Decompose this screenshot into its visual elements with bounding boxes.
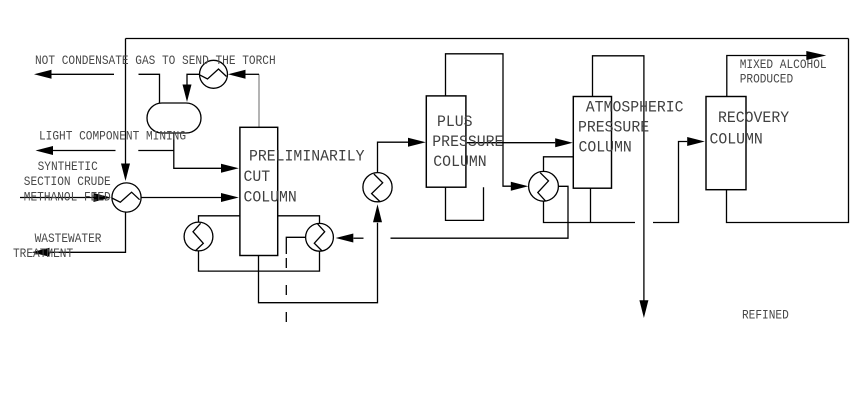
arrow feed into E1 bbox=[94, 193, 112, 202]
wire E1 to preliminary column bbox=[141, 197, 221, 199]
svg-text:LIGHT COMPONENT MINING: LIGHT COMPONENT MINING bbox=[39, 128, 186, 143]
wire drum top to torch line bbox=[139, 74, 160, 103]
heat exchanger E1 feed mixer bbox=[112, 183, 141, 212]
drum V1 reflux drum bbox=[147, 103, 201, 133]
svg-text:PLUS: PLUS bbox=[437, 112, 473, 130]
svg-text:COLUMN: COLUMN bbox=[710, 130, 763, 148]
wire E6 right to return header bbox=[391, 186, 569, 238]
arrow into plus pressure column bbox=[408, 138, 426, 147]
arrow light component mining bbox=[36, 146, 54, 155]
wire torch line left segment bbox=[51, 73, 114, 75]
wire C4 overhead mixed alcohol bbox=[727, 56, 807, 97]
wire recycle left drop bbox=[125, 39, 127, 165]
svg-text:WASTEWATER: WASTEWATER bbox=[35, 231, 102, 246]
wire C3 condenser loop refined product bbox=[593, 56, 644, 301]
wire return header left segment bbox=[354, 237, 364, 239]
wire E4 left port to dashed bbox=[286, 237, 305, 254]
svg-text:PRELIMINARILY: PRELIMINARILY bbox=[249, 147, 365, 165]
arrow into condenser E2 bbox=[228, 70, 246, 79]
svg-text:RECOVERY: RECOVERY bbox=[718, 109, 789, 127]
wire methanol feed line bbox=[20, 197, 94, 199]
wire overhead to condenser bbox=[246, 73, 260, 75]
heat exchanger E3 bbox=[184, 222, 213, 251]
svg-text:MIXED ALCOHOL: MIXED ALCOHOL bbox=[740, 57, 827, 72]
wire E3 bottom loop to E4 bbox=[199, 251, 320, 271]
svg-text:COLUMN: COLUMN bbox=[244, 188, 297, 206]
label recovery column bbox=[718, 109, 789, 127]
arrow down into drum bbox=[183, 85, 192, 103]
wire light component right segment bbox=[138, 150, 174, 152]
arrow into atmospheric column bbox=[555, 138, 573, 147]
label synthetic section crude methanol feed bbox=[38, 159, 98, 174]
svg-text:TREATMENT: TREATMENT bbox=[13, 246, 73, 261]
wire dashed drain bbox=[285, 258, 287, 322]
wire C1 side draw to E3 bbox=[199, 216, 240, 222]
column C3 atmospheric pressure column bbox=[573, 97, 611, 189]
arrow into recovery column bbox=[687, 137, 705, 146]
arrow up into E5 bbox=[373, 204, 382, 222]
svg-text:COLUMN: COLUMN bbox=[433, 153, 486, 171]
wire C2 condenser loop bbox=[446, 54, 512, 186]
svg-text:REFINED: REFINED bbox=[742, 308, 789, 323]
column C2 plus pressure column bbox=[426, 96, 466, 187]
column C4 recovery column bbox=[706, 97, 746, 190]
arrow not condensate gas bbox=[34, 70, 52, 79]
heat exchanger E5 bbox=[363, 173, 392, 202]
label refined bbox=[742, 308, 789, 323]
label not condensate gas bbox=[35, 53, 276, 68]
wire C2 reboiler U loop bbox=[446, 187, 484, 220]
heat exchanger E2 condenser bbox=[200, 60, 228, 88]
svg-text:CUT: CUT bbox=[244, 168, 271, 186]
arrow refined product down bbox=[639, 300, 648, 318]
heat exchanger E4 bbox=[306, 223, 334, 251]
svg-text:PRODUCED: PRODUCED bbox=[740, 72, 793, 87]
wire E5 to plus column bbox=[378, 142, 409, 172]
label preliminarily cut column bbox=[249, 147, 365, 165]
arrow into E4 right bbox=[336, 234, 354, 243]
svg-text:SYNTHETIC: SYNTHETIC bbox=[38, 159, 98, 174]
arrow into preliminary column lower bbox=[221, 193, 239, 202]
column C1 preliminarily cut column bbox=[240, 127, 278, 255]
heat exchanger E6 bbox=[529, 171, 559, 201]
arrow into preliminary column upper bbox=[221, 164, 239, 173]
svg-text:COLUMN: COLUMN bbox=[579, 138, 632, 156]
label light component mining bbox=[39, 128, 186, 143]
wire drum bottom to column bbox=[174, 133, 221, 168]
wire C4 bottoms recycle bbox=[727, 39, 849, 223]
svg-text:METHANOL FEED: METHANOL FEED bbox=[24, 190, 111, 205]
arrow down into feed exchanger bbox=[121, 164, 130, 182]
arrow wastewater treatment bbox=[32, 248, 50, 257]
wire atmos bottoms drop bbox=[590, 188, 592, 222]
wire E6 bottom header left bbox=[544, 201, 636, 222]
svg-text:NOT CONDENSATE GAS TO SEND THE: NOT CONDENSATE GAS TO SEND THE TORCH bbox=[35, 53, 276, 68]
arrow mixed alcohol produced bbox=[806, 51, 826, 60]
wire grey column overhead bbox=[258, 74, 260, 127]
wire condenser to drum bbox=[187, 74, 200, 85]
wire C2 outlet to atmospheric column bbox=[466, 142, 555, 144]
label plus pressure column bbox=[437, 112, 473, 130]
wire light component left segment bbox=[53, 150, 116, 152]
wire header right segment to recovery bbox=[653, 142, 687, 223]
svg-text:SECTION CRUDE: SECTION CRUDE bbox=[24, 174, 111, 189]
svg-text:ATMOSPHERIC: ATMOSPHERIC bbox=[586, 98, 684, 116]
arrow into E6 bbox=[511, 182, 529, 191]
wire E6 top to atmos column bbox=[544, 157, 574, 172]
label atmospheric pressure column bbox=[586, 98, 684, 116]
wire recycle top line bbox=[126, 38, 849, 40]
wire C1 bottoms to pump line bbox=[259, 223, 378, 303]
svg-text:PRESSURE: PRESSURE bbox=[578, 118, 649, 136]
wire E1 down to wastewater bbox=[50, 212, 126, 252]
label mixed alcohol produced bbox=[740, 57, 827, 72]
svg-text:PRESSURE: PRESSURE bbox=[432, 132, 503, 150]
label wastewater treatment bbox=[35, 231, 102, 246]
wire C1 right to E4 top bbox=[278, 216, 320, 224]
